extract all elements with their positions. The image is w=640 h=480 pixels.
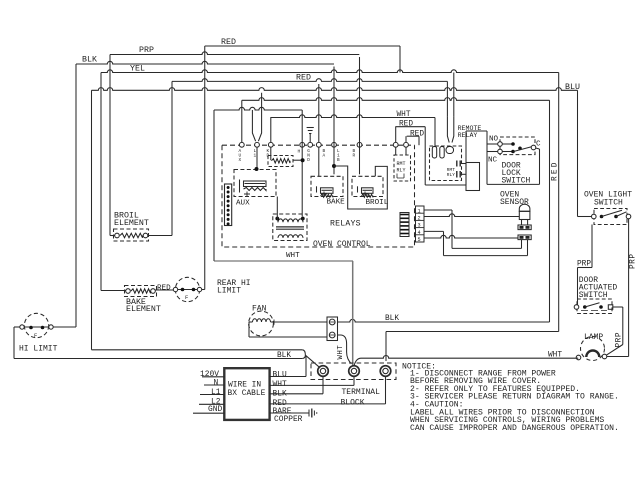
svg-text:ELEMENT: ELEMENT (114, 219, 149, 228)
svg-text:COPPER: COPPER (274, 415, 303, 424)
svg-text:F: F (185, 294, 188, 301)
svg-text:2: 2 (418, 216, 421, 222)
svg-text:D: D (307, 158, 310, 163)
svg-text:F: F (34, 332, 37, 339)
svg-text:SWITCH: SWITCH (502, 177, 531, 186)
svg-text:RMT: RMT (397, 161, 406, 167)
svg-text:AUX: AUX (236, 200, 250, 208)
svg-text:WHT: WHT (273, 380, 287, 389)
svg-text:BAKE: BAKE (327, 199, 346, 207)
svg-text:1: 1 (418, 208, 421, 214)
svg-text:BROIL: BROIL (366, 199, 389, 207)
svg-text:A: A (323, 154, 326, 159)
svg-text:FAN: FAN (252, 305, 267, 314)
svg-text:4: 4 (418, 230, 421, 236)
svg-text:BLK: BLK (277, 352, 291, 360)
svg-text:PRP: PRP (616, 332, 624, 348)
svg-text:N: N (214, 378, 219, 387)
svg-text:YEL: YEL (130, 65, 145, 74)
svg-text:REMOTE: REMOTE (458, 125, 482, 132)
svg-text:WHT: WHT (286, 252, 300, 260)
svg-text:NO: NO (489, 136, 499, 144)
svg-text:SWITCH: SWITCH (594, 199, 623, 208)
svg-text:PRP: PRP (577, 261, 591, 269)
svg-text:BLU: BLU (273, 371, 287, 380)
svg-text:WHT: WHT (337, 345, 345, 360)
svg-text:R: R (353, 154, 356, 159)
svg-text:LIMIT: LIMIT (217, 287, 241, 296)
svg-text:C: C (536, 141, 541, 149)
svg-text:RED: RED (296, 74, 311, 83)
svg-text:B: B (337, 158, 340, 163)
svg-text:BLK: BLK (385, 315, 399, 323)
svg-text:ELEMENT: ELEMENT (126, 305, 161, 314)
svg-text:RELAY: RELAY (458, 132, 478, 139)
svg-text:RED: RED (221, 38, 236, 47)
svg-text:RED: RED (410, 130, 424, 138)
svg-text:BLOCK: BLOCK (341, 399, 365, 408)
svg-text:X: X (239, 158, 242, 163)
svg-text:RED: RED (157, 285, 171, 293)
svg-text:BX CABLE: BX CABLE (228, 389, 266, 398)
svg-text:L1: L1 (211, 388, 221, 397)
svg-text:RED: RED (552, 160, 560, 181)
svg-text:BLK: BLK (82, 56, 97, 65)
svg-text:HI LIMIT: HI LIMIT (19, 345, 58, 354)
svg-text:PRP: PRP (139, 46, 154, 55)
svg-text:WHT: WHT (397, 111, 411, 119)
svg-text:SWITCH: SWITCH (579, 291, 608, 300)
svg-text:CAN CAUSE IMPROPER AND DANGERO: CAN CAUSE IMPROPER AND DANGEROUS OPERATI… (410, 424, 619, 433)
svg-text:RED: RED (399, 121, 413, 129)
svg-text:NC: NC (488, 157, 498, 165)
svg-text:RLY: RLY (447, 172, 455, 178)
svg-text:RLY: RLY (397, 168, 406, 174)
svg-text:3: 3 (418, 223, 421, 229)
svg-text:RELAYS: RELAYS (330, 220, 361, 229)
svg-text:5: 5 (418, 237, 421, 243)
svg-text:H: H (298, 149, 301, 155)
svg-text:PRP: PRP (630, 253, 638, 269)
svg-text:SENSOR: SENSOR (500, 198, 529, 207)
svg-text:1: 1 (254, 154, 257, 159)
svg-text:TERMINAL: TERMINAL (342, 388, 381, 397)
svg-text:OVEN CONTROL: OVEN CONTROL (313, 240, 371, 249)
